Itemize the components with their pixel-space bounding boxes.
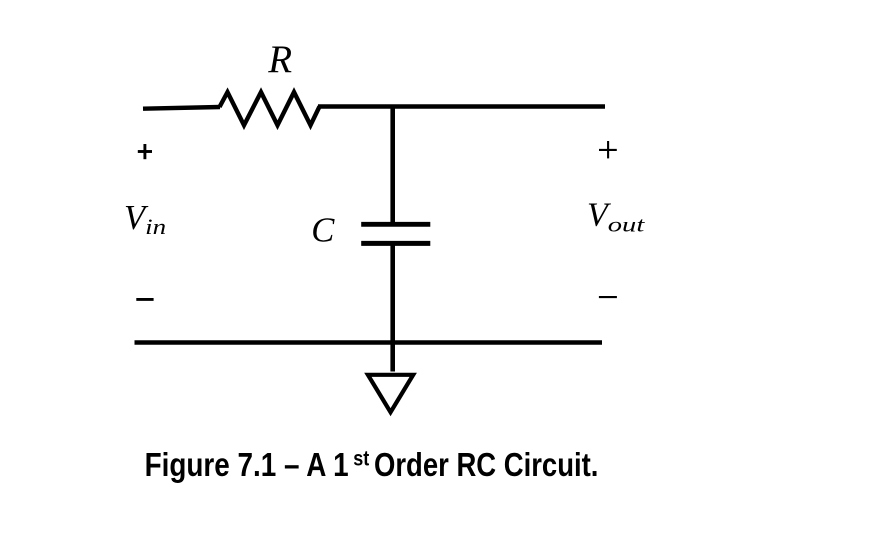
- resistor R: [220, 92, 320, 125]
- wire: capacitor top lead: [390, 107, 395, 223]
- wire: bottom ground bus: [135, 340, 603, 344]
- capacitor C top plate: [361, 222, 430, 227]
- svg-text:st: st: [353, 447, 369, 470]
- svg-text:Vout: Vout: [587, 197, 646, 237]
- svg-text:R: R: [267, 38, 292, 81]
- svg-text:Figure 7.1 – A 1: Figure 7.1 – A 1: [145, 446, 349, 483]
- label minus (left, Vin negative terminal): [136, 298, 153, 301]
- wire: ground stub below bottom bus: [390, 343, 395, 372]
- label + (left, Vin positive terminal): [138, 144, 152, 159]
- caption: Figure 7.1 - A 1st Order RC Circuit.: [145, 446, 599, 483]
- svg-text:C: C: [311, 212, 335, 250]
- wire: capacitor bottom lead: [390, 244, 395, 343]
- wire: top net from resistor to output terminal: [318, 104, 605, 108]
- ground symbol: [368, 375, 413, 412]
- label + (right, Vout positive terminal): [599, 141, 617, 158]
- label minus (right, Vout negative terminal): [599, 296, 617, 298]
- wire: input top lead: [143, 107, 220, 109]
- svg-text:Order RC Circuit.: Order RC Circuit.: [374, 446, 598, 483]
- capacitor C bottom plate: [361, 241, 430, 246]
- svg-text:Vin: Vin: [124, 199, 166, 239]
